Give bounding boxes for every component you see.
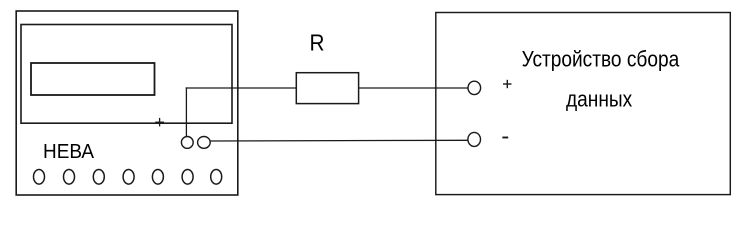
meter terminal screw 1 <box>34 170 45 185</box>
meter impulse output terminal B (right) <box>198 137 211 149</box>
svg-text:R: R <box>310 29 325 55</box>
DAQ - input terminal <box>468 132 481 146</box>
meter M1 front panel (inner rectangle) <box>21 25 232 124</box>
meter M1 LCD display window <box>31 63 155 95</box>
label - (DAQ negative input) <box>502 137 508 139</box>
meter terminal screw 4 <box>123 170 134 185</box>
wire: horizontal to resistor R <box>186 87 296 89</box>
svg-text:данных: данных <box>566 87 632 112</box>
svg-text:НЕВА: НЕВА <box>43 141 95 163</box>
meter terminal screw 2 <box>64 170 75 185</box>
meter terminal screw 3 <box>93 170 104 185</box>
wire: terminal A up <box>185 87 187 136</box>
svg-text:Устройство сбора: Устройство сбора <box>522 47 680 72</box>
label + (DAQ positive input) <box>503 80 512 88</box>
meter terminal screw 7 <box>211 170 222 185</box>
meter terminal screw 5 <box>152 170 163 185</box>
DAQ unit U1 (Устройство сбора данных) enclosure <box>436 13 731 195</box>
resistor R body <box>296 73 358 104</box>
wire: terminal B to DAQ - terminal <box>210 139 468 142</box>
meter impulse output terminal A (left) <box>181 137 193 149</box>
wire: resistor R to DAQ + terminal <box>359 87 468 89</box>
polarity marker + on meter panel <box>155 118 164 127</box>
meter M1 (НЕВА energy meter) outer case <box>16 11 238 195</box>
meter terminal screw 6 <box>182 170 193 185</box>
DAQ + input terminal <box>468 81 481 94</box>
